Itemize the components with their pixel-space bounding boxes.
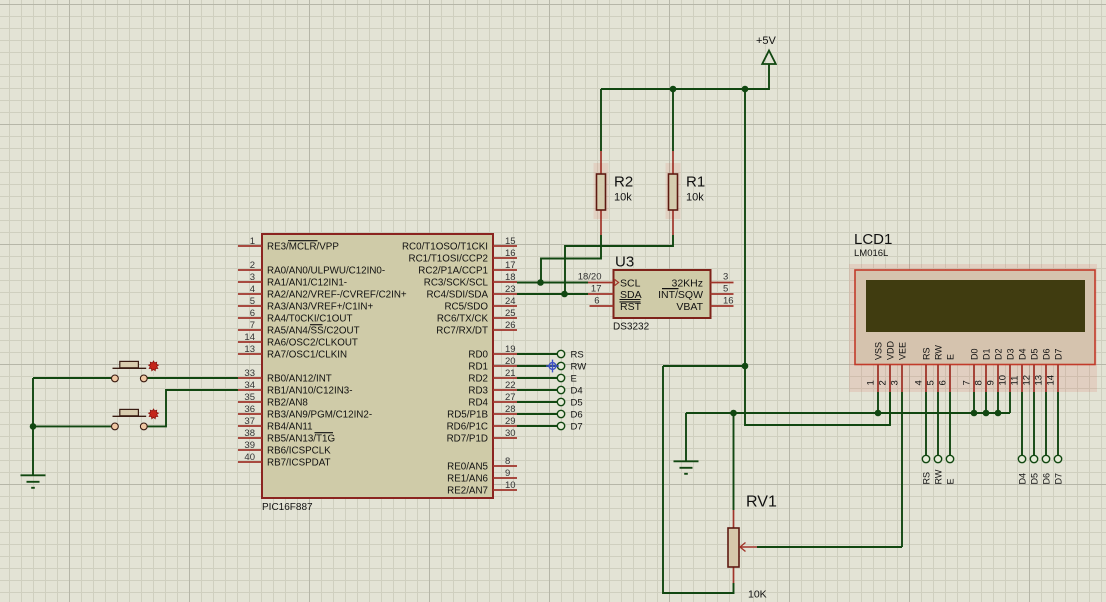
svg-text:SCL: SCL	[620, 278, 641, 290]
svg-text:VEE: VEE	[897, 342, 907, 360]
svg-text:RC1/T1OSI/CCP2: RC1/T1OSI/CCP2	[409, 253, 489, 264]
svg-text:RA7/OSC1/CLKIN: RA7/OSC1/CLKIN	[267, 349, 347, 360]
svg-text:RC4/SDI/SDA: RC4/SDI/SDA	[426, 289, 488, 300]
svg-text:RE1/AN6: RE1/AN6	[447, 473, 488, 484]
svg-text:PIC16F887: PIC16F887	[262, 502, 313, 513]
svg-text:RV1: RV1	[746, 494, 777, 511]
svg-text:23: 23	[505, 284, 516, 295]
svg-text:RD1: RD1	[468, 361, 488, 372]
svg-text:RA4/T0CKI/C1OUT: RA4/T0CKI/C1OUT	[267, 313, 352, 324]
svg-text:8: 8	[973, 380, 984, 385]
svg-text:RS: RS	[921, 472, 931, 485]
svg-text:1: 1	[865, 380, 876, 385]
svg-text:D4: D4	[571, 385, 583, 396]
svg-text:RC0/T1OSO/T1CKI: RC0/T1OSO/T1CKI	[402, 241, 488, 252]
svg-text:4: 4	[250, 284, 255, 295]
svg-text:10k: 10k	[686, 192, 704, 204]
svg-text:2: 2	[250, 260, 255, 271]
svg-text:14: 14	[1045, 375, 1056, 386]
svg-text:RA2/AN2/VREF-/CVREF/C2IN+: RA2/AN2/VREF-/CVREF/C2IN+	[267, 289, 407, 300]
svg-text:RST: RST	[620, 301, 642, 313]
svg-text:33: 33	[244, 368, 255, 379]
svg-text:D4: D4	[1017, 348, 1027, 360]
svg-text:DS3232: DS3232	[613, 322, 650, 333]
svg-text:25: 25	[505, 308, 516, 319]
svg-text:+5V: +5V	[756, 35, 777, 47]
svg-text:VBAT: VBAT	[676, 301, 703, 313]
svg-text:D3: D3	[1005, 348, 1015, 360]
svg-text:9: 9	[505, 468, 510, 479]
svg-text:17: 17	[591, 283, 602, 294]
svg-text:LM016L: LM016L	[854, 248, 888, 259]
svg-text:R2: R2	[614, 174, 633, 191]
svg-text:1: 1	[250, 236, 255, 247]
svg-text:10: 10	[997, 375, 1008, 386]
svg-text:D7: D7	[571, 421, 583, 432]
svg-text:34: 34	[244, 380, 255, 391]
svg-text:13: 13	[244, 344, 255, 355]
svg-text:RE3/MCLR/VPP: RE3/MCLR/VPP	[267, 241, 339, 252]
svg-text:INT/SQW: INT/SQW	[658, 289, 703, 301]
svg-text:6: 6	[250, 308, 255, 319]
svg-text:RD7/P1D: RD7/P1D	[447, 433, 488, 444]
svg-text:10: 10	[505, 480, 516, 491]
svg-text:40: 40	[244, 452, 255, 463]
svg-text:18: 18	[505, 272, 516, 283]
svg-text:VDD: VDD	[885, 340, 895, 360]
svg-text:R1: R1	[686, 174, 705, 191]
svg-text:RA6/OSC2/CLKOUT: RA6/OSC2/CLKOUT	[267, 337, 358, 348]
svg-text:D6: D6	[1041, 348, 1051, 360]
svg-text:RA0/AN0/ULPWU/C12IN0-: RA0/AN0/ULPWU/C12IN0-	[267, 265, 385, 276]
svg-text:36: 36	[244, 404, 255, 415]
svg-text:RE0/AN5: RE0/AN5	[447, 461, 488, 472]
svg-text:12: 12	[1021, 375, 1032, 386]
svg-text:E: E	[571, 373, 577, 384]
svg-text:D6: D6	[1041, 473, 1051, 485]
svg-text:9: 9	[985, 380, 996, 385]
svg-text:D7: D7	[1053, 348, 1063, 360]
svg-text:32KHz: 32KHz	[671, 278, 703, 290]
svg-text:RD2: RD2	[468, 373, 488, 384]
svg-text:RC6/TX/CK: RC6/TX/CK	[437, 313, 489, 324]
svg-text:D2: D2	[993, 348, 1003, 360]
svg-text:39: 39	[244, 440, 255, 451]
svg-text:RB1/AN10/C12IN3-: RB1/AN10/C12IN3-	[267, 385, 353, 396]
svg-text:6: 6	[937, 380, 948, 385]
svg-text:2: 2	[877, 380, 888, 385]
svg-text:30: 30	[505, 428, 516, 439]
svg-text:D0: D0	[969, 348, 979, 360]
svg-text:27: 27	[505, 392, 516, 403]
svg-text:D7: D7	[1053, 473, 1063, 485]
svg-text:E: E	[945, 354, 955, 360]
svg-text:D6: D6	[571, 409, 583, 420]
svg-text:3: 3	[723, 272, 728, 283]
svg-text:8: 8	[505, 456, 510, 467]
svg-text:17: 17	[505, 260, 516, 271]
svg-text:RS: RS	[921, 347, 931, 360]
svg-text:7: 7	[961, 380, 972, 385]
svg-text:7: 7	[250, 320, 255, 331]
svg-text:RB7/ICSPDAT: RB7/ICSPDAT	[267, 457, 331, 468]
svg-text:RB5/AN13/T1G: RB5/AN13/T1G	[267, 433, 335, 444]
svg-text:38: 38	[244, 428, 255, 439]
svg-text:RB0/AN12/INT: RB0/AN12/INT	[267, 373, 332, 384]
svg-text:22: 22	[505, 380, 516, 391]
svg-text:20: 20	[505, 356, 516, 367]
svg-text:RE2/AN7: RE2/AN7	[447, 485, 488, 496]
svg-text:19: 19	[505, 344, 516, 355]
svg-text:D4: D4	[1017, 473, 1027, 485]
svg-text:RD5/P1B: RD5/P1B	[447, 409, 488, 420]
svg-text:26: 26	[505, 320, 516, 331]
svg-text:RD4: RD4	[468, 397, 488, 408]
svg-text:D5: D5	[571, 397, 583, 408]
svg-text:VSS: VSS	[873, 342, 883, 360]
svg-text:RB3/AN9/PGM/C12IN2-: RB3/AN9/PGM/C12IN2-	[267, 409, 372, 420]
svg-text:RB4/AN11: RB4/AN11	[267, 421, 313, 432]
svg-text:RS: RS	[571, 349, 584, 360]
svg-text:U3: U3	[615, 254, 634, 271]
svg-text:5: 5	[250, 296, 255, 307]
svg-text:16: 16	[505, 248, 516, 259]
svg-text:RB6/ICSPCLK: RB6/ICSPCLK	[267, 445, 331, 456]
svg-text:RW: RW	[933, 469, 943, 484]
svg-text:3: 3	[250, 272, 255, 283]
svg-text:RW: RW	[933, 345, 943, 360]
svg-text:6: 6	[594, 295, 599, 306]
svg-text:14: 14	[244, 332, 255, 343]
svg-text:D1: D1	[981, 348, 991, 360]
svg-text:RD0: RD0	[468, 349, 488, 360]
svg-text:RA1/AN1/C12IN1-: RA1/AN1/C12IN1-	[267, 277, 347, 288]
svg-text:15: 15	[505, 236, 516, 247]
svg-text:18/20: 18/20	[578, 272, 602, 283]
svg-text:RC2/P1A/CCP1: RC2/P1A/CCP1	[418, 265, 488, 276]
svg-text:35: 35	[244, 392, 255, 403]
svg-text:13: 13	[1033, 375, 1044, 386]
svg-text:29: 29	[505, 416, 516, 427]
svg-text:RB2/AN8: RB2/AN8	[267, 397, 308, 408]
svg-text:E: E	[945, 478, 955, 484]
svg-text:3: 3	[889, 380, 900, 385]
svg-text:16: 16	[723, 295, 734, 306]
svg-text:RC7/RX/DT: RC7/RX/DT	[436, 325, 488, 336]
svg-text:28: 28	[505, 404, 516, 415]
svg-text:4: 4	[913, 380, 924, 385]
svg-text:RA5/AN4/SS/C2OUT: RA5/AN4/SS/C2OUT	[267, 325, 360, 336]
svg-text:10k: 10k	[614, 192, 632, 204]
svg-text:D5: D5	[1029, 473, 1039, 485]
svg-text:24: 24	[505, 296, 516, 307]
svg-text:5: 5	[723, 283, 728, 294]
svg-text:21: 21	[505, 368, 516, 379]
svg-text:5: 5	[925, 380, 936, 385]
svg-text:RW: RW	[571, 361, 587, 372]
svg-text:RC5/SDO: RC5/SDO	[444, 301, 488, 312]
svg-text:RA3/AN3/VREF+/C1IN+: RA3/AN3/VREF+/C1IN+	[267, 301, 373, 312]
svg-text:10K: 10K	[748, 589, 767, 601]
svg-text:11: 11	[1009, 376, 1020, 386]
svg-text:RC3/SCK/SCL: RC3/SCK/SCL	[424, 277, 489, 288]
svg-text:RD3: RD3	[468, 385, 488, 396]
svg-text:RD6/P1C: RD6/P1C	[447, 421, 488, 432]
svg-text:37: 37	[244, 416, 255, 427]
svg-text:LCD1: LCD1	[854, 231, 892, 248]
svg-text:D5: D5	[1029, 348, 1039, 360]
